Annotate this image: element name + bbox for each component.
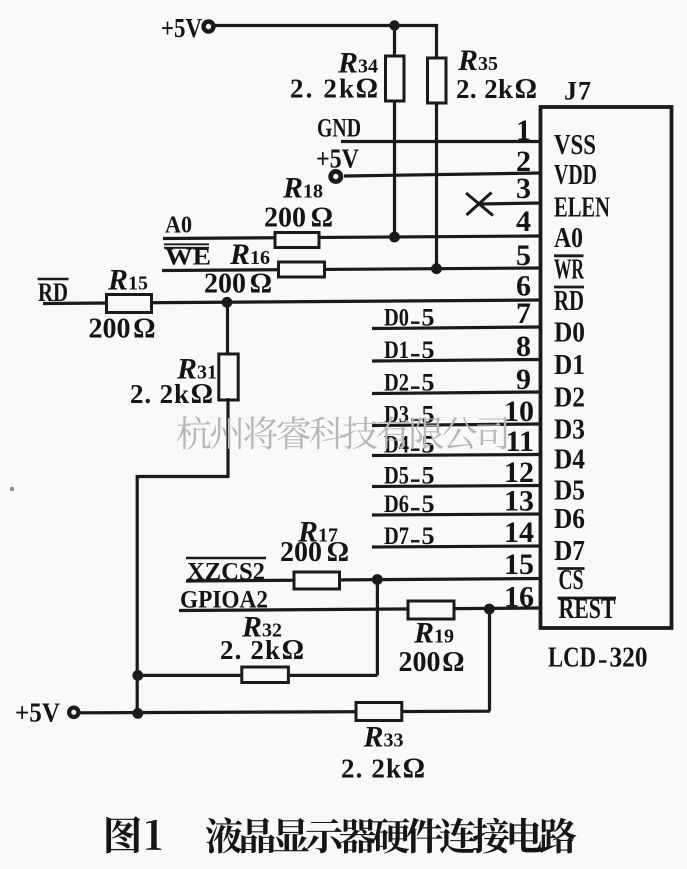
wire R31 riser [226,302,229,356]
wire pin 12 (D5) [372,486,540,487]
wire R34 to pin4 [393,99,396,237]
svg-text:D4: D4 [554,445,585,476]
wire pin 10 (D3) [372,424,540,426]
wire pin 8 (D1) [372,360,540,362]
svg-text:+5V: +5V [15,698,60,728]
svg-text:XZCS2: XZCS2 [187,559,265,586]
svg-text:4: 4 [516,205,531,238]
svg-text:10: 10 [504,395,534,428]
junction pin16 / R33 [484,604,495,615]
svg-text:ELEN: ELEN [554,193,610,224]
resistor R15 [107,295,152,313]
svg-text:13: 13 [504,485,534,518]
+5V terminal (top) [201,19,215,33]
svg-text:D5: D5 [384,463,409,490]
svg-text:15: 15 [504,548,534,581]
wire pin 1 (VSS) [341,140,540,143]
svg-text:200: 200 [280,537,322,568]
svg-text:Ω: Ω [250,269,272,300]
svg-text:D5: D5 [554,476,585,507]
wire pin 13 (D6) [372,514,540,515]
resistor R32 [242,667,289,683]
svg-text:5: 5 [516,239,531,272]
svg-text:D6: D6 [554,504,585,535]
svg-text:200: 200 [399,647,441,678]
svg-text:2. 2k: 2. 2k [130,379,189,409]
svg-text:16: 16 [504,581,534,614]
junction R34 top [389,20,399,30]
svg-text:A0: A0 [165,213,192,239]
svg-text:D7: D7 [554,536,585,567]
wire pin 15 (CS) [186,579,540,582]
+5V terminal (pin2) [328,169,343,184]
wire R32 riser to pin15 [376,580,379,676]
wire +5V bottom rail [80,711,490,713]
svg-text:11: 11 [506,425,534,458]
svg-text:Ω: Ω [442,647,464,678]
svg-text:RD: RD [38,278,68,307]
svg-text:Ω: Ω [515,74,537,105]
svg-text:RD: RD [554,286,584,317]
svg-text:D3: D3 [554,415,585,446]
svg-text:7: 7 [516,297,531,330]
svg-text:200: 200 [89,314,131,345]
resistor R34 [386,56,405,101]
svg-text:WR: WR [554,255,584,286]
wire pin 3 (ELEN) [480,203,540,204]
svg-text:5: 5 [422,402,435,429]
wire R31 down elbow [226,398,229,477]
svg-text:D2: D2 [554,383,585,414]
scan speck left margin [10,487,14,491]
svg-text:VDD: VDD [554,160,597,191]
resistor R35 [428,58,447,103]
svg-text:200: 200 [264,203,306,234]
wire pin 2 (VDD) [344,173,540,176]
resistor R19 [408,601,454,619]
watermark 杭州将睿科技有限公司 [177,416,211,449]
junction R35 / pin5 [431,263,442,274]
svg-text:+5V: +5V [316,144,359,174]
svg-text:VSS: VSS [554,130,596,161]
resistor R17 [294,572,340,589]
wire pin 7 (D0) [372,327,540,329]
wire pin 9 (D2) [372,392,540,394]
svg-text:Ω: Ω [282,635,304,666]
svg-text:GND: GND [317,114,361,143]
junction +5V / left vertical [132,708,143,719]
svg-text:14: 14 [504,516,534,549]
svg-text:D0: D0 [554,318,585,349]
svg-text:2. 2k: 2. 2k [220,635,280,665]
svg-text:Ω: Ω [356,74,378,105]
wire pin 4 (A0) [163,236,540,239]
resistor R16 [279,262,325,277]
wire pin 6 (RD) [43,300,540,304]
svg-text:2. 2k: 2. 2k [341,754,401,784]
svg-text:5: 5 [422,370,435,397]
svg-text:5: 5 [422,432,435,459]
svg-text:5: 5 [422,523,435,550]
svg-text:Ω: Ω [403,754,425,785]
wire +5V top rail [214,24,438,27]
svg-text:D1: D1 [384,337,409,364]
svg-text:8: 8 [516,330,531,363]
svg-text:5: 5 [422,463,435,490]
svg-text:D4: D4 [384,432,409,459]
wire R32 line [137,674,377,677]
junction R32 / left vertical [132,670,143,681]
svg-text:5: 5 [422,337,435,364]
wire R34 riser [393,26,396,59]
svg-text:Ω: Ω [133,314,155,345]
wire rail corner to R35 [435,24,438,60]
svg-text:Ω: Ω [311,203,333,234]
junction pin6 / R31 [222,297,233,308]
wire pin 16 (REST) [179,608,540,611]
svg-text:2. 2k: 2. 2k [456,74,513,104]
svg-text:A0: A0 [554,223,583,254]
caption 图1 液晶显示器硬件连接电路 [106,816,140,853]
svg-text:Ω: Ω [191,379,213,410]
svg-text:Ω: Ω [327,537,349,568]
wire R35 to pin5 [435,101,438,269]
resistor R18 [275,233,319,248]
+5V terminal (bottom) [67,706,81,720]
resistor R33 [356,703,402,721]
svg-text:D0: D0 [384,305,409,332]
svg-text:5: 5 [422,305,435,332]
no-connect X (pin 3) [466,193,493,216]
svg-text:200: 200 [204,269,246,300]
svg-text:9: 9 [516,363,531,396]
svg-text:J 7: J 7 [564,77,591,106]
svg-text:+5V: +5V [161,13,202,43]
junction R34 / pin4 [389,232,400,243]
resistor R31 [219,354,238,400]
junction pin15 / R32 [372,574,383,585]
svg-text:D2: D2 [384,370,409,397]
svg-text:D6: D6 [384,491,409,518]
svg-text:D7: D7 [384,523,409,550]
svg-text:LCD: LCD [548,643,596,674]
wire pin 14 (D7) [372,546,540,547]
svg-text:320: 320 [610,643,648,674]
svg-text:D1: D1 [554,350,585,381]
wire pin 11 (D4) [372,455,540,456]
wire R33 riser to pin16 [488,609,491,711]
connector J7 box [541,107,672,628]
svg-text:1: 1 [516,114,531,147]
svg-text:3: 3 [516,172,531,205]
svg-text:5: 5 [422,491,435,518]
svg-text:GPIOA2: GPIOA2 [180,587,268,614]
wire pin 5 (WR) [162,268,540,271]
